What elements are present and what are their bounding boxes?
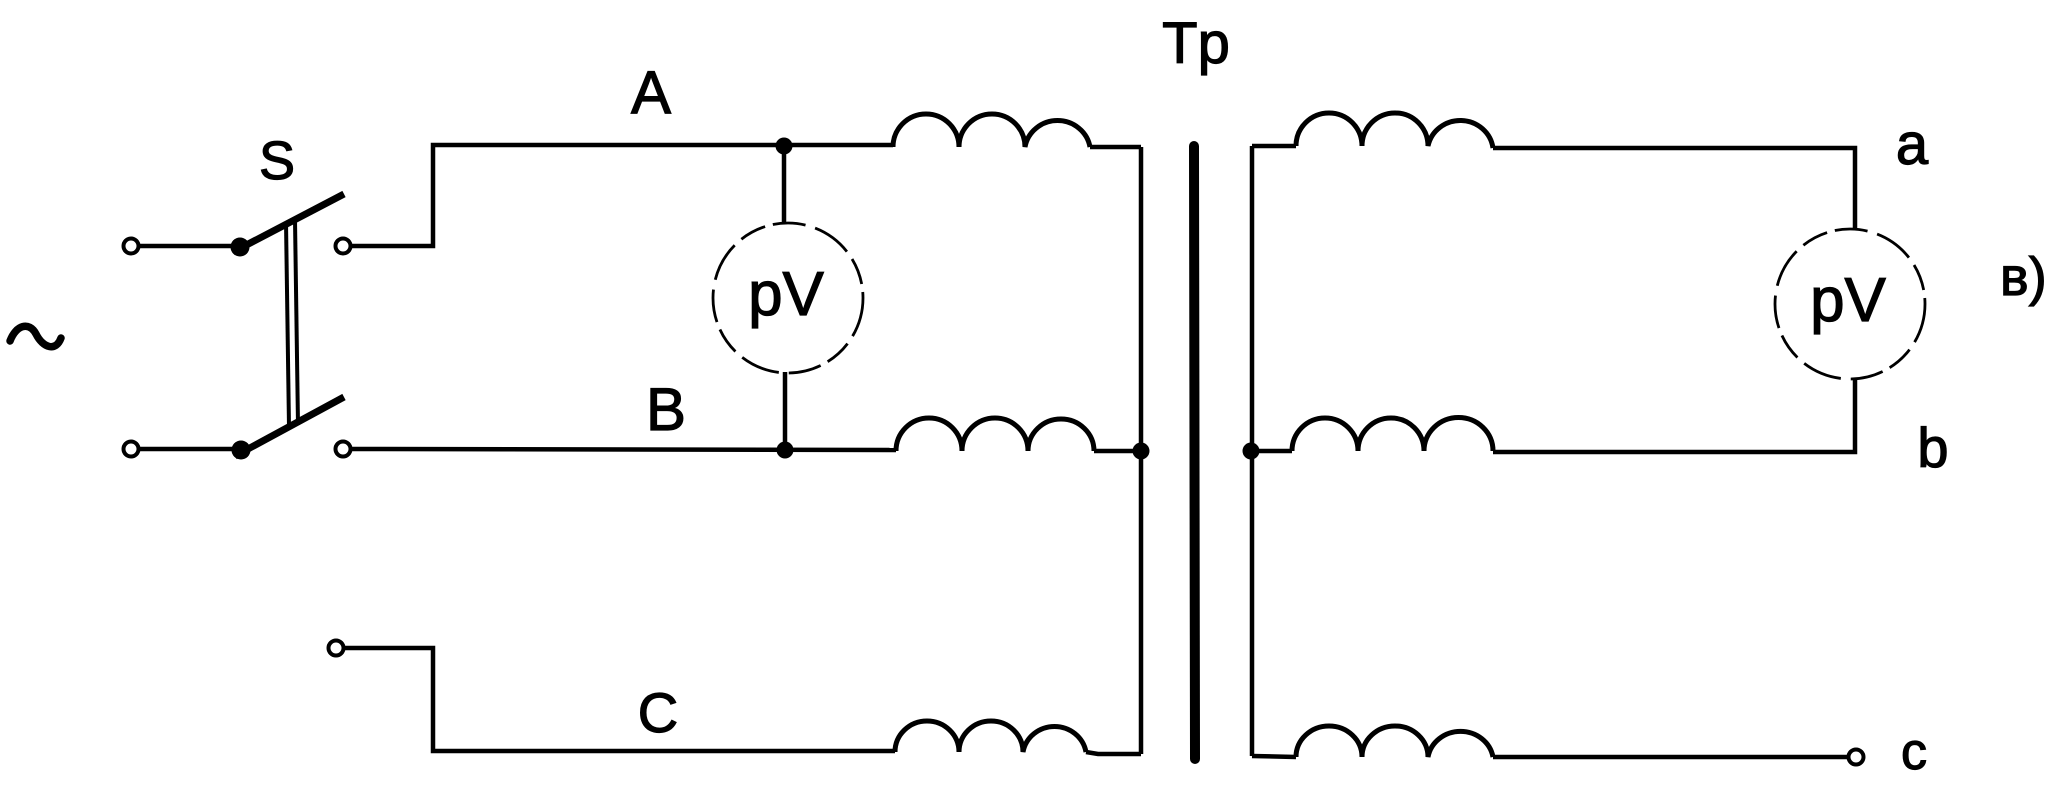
switch S upper pole <box>231 194 345 257</box>
node primary bus junction <box>1133 443 1150 460</box>
svg-text:C: C <box>638 681 678 744</box>
wire phase C <box>344 648 895 751</box>
svg-text:в): в) <box>2000 247 2047 307</box>
wire phase b <box>1493 378 1855 452</box>
wire coil A to bus <box>1090 145 1141 150</box>
node B junction <box>777 442 794 459</box>
primary winding B <box>896 418 1094 451</box>
wire upper input <box>139 244 233 249</box>
terminal input C <box>329 641 344 656</box>
voltmeter pV secondary <box>1775 229 1925 379</box>
wire primary bus vertical <box>1139 147 1144 754</box>
wire bus to coil a <box>1252 144 1296 149</box>
switch S linkage bar <box>286 220 298 427</box>
secondary winding b <box>1292 418 1493 451</box>
wire secondary bus vertical <box>1250 146 1255 756</box>
svg-text:A: A <box>631 59 671 126</box>
svg-text:pV: pV <box>1810 266 1886 335</box>
wire coil B to bus <box>1094 449 1141 454</box>
svg-text:c: c <box>1901 723 1927 781</box>
svg-text:a: a <box>1896 112 1929 177</box>
terminal lower input <box>124 442 139 457</box>
switch S lower pole <box>232 397 345 460</box>
wire phase B <box>351 449 896 450</box>
node A junction <box>776 138 793 155</box>
svg-text:B: B <box>646 376 686 443</box>
wire bus to coil b <box>1251 449 1292 454</box>
terminal upper input <box>124 239 139 254</box>
svg-text:S: S <box>259 131 295 191</box>
switch terminal lower right <box>336 442 351 457</box>
AC source ~ <box>10 326 61 346</box>
wire bus to coil c <box>1252 756 1296 757</box>
wire lower input <box>139 447 235 452</box>
wire phase c <box>1493 755 1848 760</box>
wire voltmeter top lead <box>782 146 787 224</box>
primary winding A <box>893 114 1090 147</box>
node secondary bus junction <box>1243 443 1260 460</box>
secondary winding c <box>1296 726 1493 757</box>
wire voltmeter bottom lead <box>783 372 788 450</box>
transformer core Tp <box>1194 146 1195 759</box>
svg-text:Tp: Tp <box>1162 11 1230 76</box>
wire coil C to bus <box>1086 752 1141 754</box>
voltmeter pV primary <box>713 223 863 373</box>
secondary winding a <box>1296 113 1493 148</box>
wire phase A <box>351 145 893 246</box>
terminal c <box>1849 750 1864 765</box>
primary winding C <box>895 721 1086 752</box>
svg-text:b: b <box>1917 416 1948 479</box>
svg-text:pV: pV <box>748 260 824 329</box>
switch terminal upper right <box>336 239 351 254</box>
wire phase a <box>1493 148 1855 229</box>
